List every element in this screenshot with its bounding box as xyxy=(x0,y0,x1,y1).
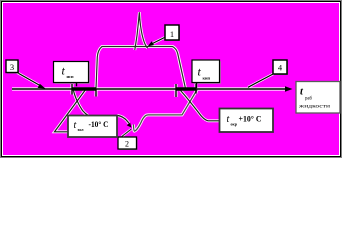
svg-text:кип: кип xyxy=(203,76,211,81)
svg-text:t: t xyxy=(74,120,77,131)
svg-text:окр: окр xyxy=(231,122,238,127)
svg-text:исп: исп xyxy=(67,74,74,79)
svg-text:2: 2 xyxy=(125,140,129,149)
svg-text:3: 3 xyxy=(10,62,14,72)
svg-text:+10° C: +10° C xyxy=(239,115,262,124)
svg-text:хол: хол xyxy=(78,127,85,132)
svg-text:1: 1 xyxy=(170,29,174,39)
svg-text:t: t xyxy=(227,114,230,125)
svg-text:раб: раб xyxy=(305,97,313,102)
svg-text:жидкости: жидкости xyxy=(298,104,330,110)
svg-text:-10° C: -10° C xyxy=(89,120,109,129)
